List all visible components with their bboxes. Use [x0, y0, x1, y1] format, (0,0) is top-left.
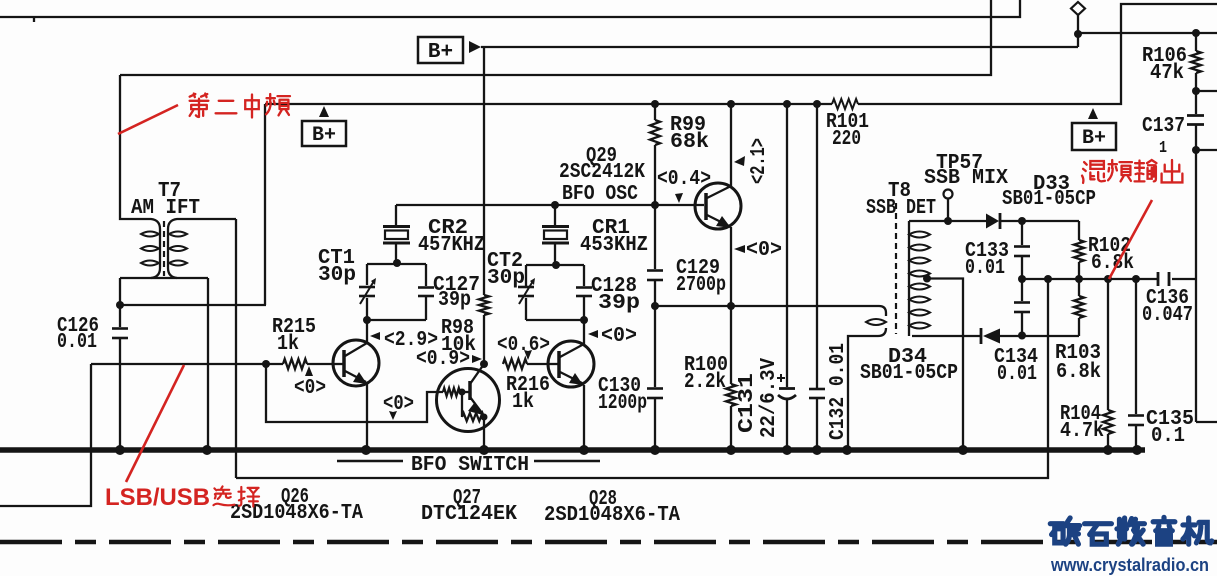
ground bus	[0, 445, 1145, 455]
transistor Q27	[437, 364, 500, 448]
svg-text:1200p: 1200p	[598, 392, 647, 415]
resistor R100	[684, 306, 736, 448]
svg-text:2.2k: 2.2k	[684, 371, 726, 394]
wire Q26 base to Q27 input	[266, 364, 443, 422]
svg-text:47k: 47k	[1150, 62, 1184, 85]
red annotation LSB text	[105, 484, 259, 511]
transistor Q29	[559, 100, 741, 306]
label voltage 0 mid	[383, 393, 414, 420]
svg-text:B+: B+	[312, 124, 336, 147]
wire base row	[91, 360, 334, 368]
resistor R106	[1142, 29, 1217, 114]
svg-text:LSB/USB: LSB/USB	[105, 484, 210, 511]
capacitor C134	[994, 275, 1038, 386]
label voltage 0 at R215	[294, 366, 326, 400]
capacitor C130 label	[598, 375, 647, 415]
capacitor C127	[418, 264, 480, 320]
resistor R101	[826, 99, 869, 151]
svg-text:<0.9>: <0.9>	[416, 348, 470, 371]
capacitor C129	[647, 205, 726, 306]
svg-text:453KHZ: 453KHZ	[580, 234, 648, 257]
wire LSB/USB stub	[0, 364, 91, 506]
svg-text:B+: B+	[1082, 127, 1106, 150]
svg-text:<0>: <0>	[746, 239, 782, 262]
wire cell2 bottom rail	[526, 316, 588, 324]
capacitor C130	[647, 306, 663, 448]
svg-text:1: 1	[1159, 139, 1167, 158]
svg-text:2SD1048X6-TA: 2SD1048X6-TA	[230, 502, 363, 525]
power label B+ (left)	[302, 106, 346, 147]
wire oscillator row	[396, 201, 704, 209]
label voltage 0 at Q29	[734, 239, 782, 262]
svg-text:0.01: 0.01	[997, 363, 1037, 386]
svg-text:BFO SWITCH: BFO SWITCH	[411, 454, 529, 477]
resistor R216	[503, 359, 550, 414]
svg-text:39p: 39p	[438, 289, 471, 312]
node C126 junction	[116, 278, 124, 327]
svg-text:39p: 39p	[598, 292, 640, 315]
capacitor C136	[1142, 272, 1193, 327]
svg-text:C132 0.01: C132 0.01	[827, 343, 850, 440]
svg-text:B+: B+	[428, 41, 453, 64]
capacitor C131	[736, 100, 796, 448]
wire second rail	[120, 0, 991, 75]
svg-text:SB01-05CP: SB01-05CP	[1002, 188, 1096, 211]
svg-text:<0.4>: <0.4>	[657, 168, 711, 191]
label voltage 0.6	[497, 334, 550, 360]
wire left branch x265	[264, 104, 266, 305]
svg-text:30p: 30p	[487, 267, 525, 290]
svg-text:0.01: 0.01	[57, 331, 97, 354]
capacitor C133	[965, 217, 1030, 280]
resistor R98	[441, 47, 489, 368]
wire C126 node to x265	[120, 304, 266, 306]
svg-text:22/6.3V: 22/6.3V	[758, 358, 781, 438]
svg-text:SB01-05CP: SB01-05CP	[860, 362, 958, 385]
red annotation LSB line	[126, 365, 184, 482]
wire detector row	[909, 220, 986, 222]
label voltage 2.1	[734, 138, 771, 184]
wire mix output row y279	[1022, 275, 1196, 283]
svg-text:0.01: 0.01	[965, 257, 1005, 280]
label voltage 0 at Q28	[588, 325, 637, 348]
resistor R215	[272, 316, 316, 369]
svg-text:30p: 30p	[318, 264, 356, 287]
dashed boundary line	[0, 540, 1217, 545]
diode D34	[860, 328, 1079, 385]
resistor R103	[1055, 279, 1101, 384]
svg-text:<0>: <0>	[294, 377, 326, 400]
test point TP57	[924, 152, 1008, 225]
svg-text:<2.1>: <2.1>	[748, 138, 771, 184]
svg-text:<0.6>: <0.6>	[497, 334, 550, 357]
resistor R102	[1074, 221, 1134, 279]
svg-text:BFO OSC: BFO OSC	[562, 183, 638, 206]
svg-text:www.crystalradio.cn: www.crystalradio.cn	[1050, 555, 1209, 575]
svg-text:2700p: 2700p	[676, 274, 726, 297]
wire T7 secondary right down	[207, 278, 209, 448]
svg-text:AM IFT: AM IFT	[131, 197, 200, 220]
capacitor C135	[1128, 279, 1194, 448]
capacitor C126	[57, 315, 128, 448]
capacitor C132	[809, 100, 850, 448]
transformer T7	[120, 75, 236, 278]
connector J (top right)	[1071, 2, 1085, 47]
power label B+ (right)	[1072, 108, 1116, 150]
label voltage 0.4	[657, 168, 711, 203]
svg-text:0.1: 0.1	[1151, 425, 1185, 448]
transistor Q28	[548, 320, 594, 448]
label Q28 part	[544, 488, 680, 527]
wire cell1 top rail	[367, 259, 426, 267]
svg-text:2SC2412K: 2SC2412K	[559, 161, 645, 184]
wire cell1 bottom rail	[363, 316, 426, 324]
wire B+ feed	[481, 46, 1078, 48]
svg-text:C131: C131	[736, 373, 759, 433]
label Q26 part	[230, 486, 363, 525]
red annotation second IF line	[118, 105, 178, 134]
label voltage 0.9	[416, 348, 482, 371]
wire T7 right lead down	[235, 219, 237, 478]
wire BFO return path	[236, 279, 1048, 478]
coupling link of T8	[848, 313, 886, 448]
resistor R104	[1060, 279, 1113, 448]
svg-text:68k: 68k	[670, 131, 709, 154]
wire cell2 top rail	[526, 264, 584, 266]
svg-text:2SD1048X6-TA: 2SD1048X6-TA	[544, 504, 680, 527]
svg-text:SSB MIX: SSB MIX	[924, 167, 1008, 190]
capacitor C137	[1142, 115, 1217, 422]
capacitor trimmer CT1	[318, 247, 376, 320]
resistor R99	[650, 100, 709, 205]
wire branch to right edge	[1074, 30, 1217, 38]
wire T8 tap	[927, 279, 963, 449]
svg-text:1k: 1k	[512, 391, 534, 414]
red annotation mixer out line	[1109, 200, 1152, 279]
label Q27 part	[421, 487, 517, 526]
capacitor C128	[576, 265, 640, 320]
transistor Q26	[333, 320, 379, 448]
capacitor trimmer CT2	[487, 250, 535, 320]
svg-text:6.8k: 6.8k	[1056, 361, 1101, 384]
svg-text:DTC124EK: DTC124EK	[421, 503, 517, 526]
wire top rail	[0, 0, 1020, 22]
svg-text:<0>: <0>	[383, 393, 414, 416]
diode D33	[986, 173, 1096, 229]
svg-text:1k: 1k	[277, 333, 299, 356]
power label B+ (top)	[418, 37, 481, 64]
svg-text:SSB DET: SSB DET	[866, 197, 936, 220]
transformer T8	[866, 180, 981, 336]
svg-text:4.7k: 4.7k	[1060, 420, 1104, 443]
label BFO SWITCH	[337, 454, 600, 477]
red annotation second IF text	[190, 94, 290, 118]
crystal CR1	[542, 205, 648, 269]
watermark url	[1050, 555, 1209, 575]
watermark logo	[1050, 517, 1211, 544]
crystal CR2	[383, 205, 485, 263]
wire emitter row y306	[651, 302, 886, 313]
label voltage 2.9	[370, 329, 438, 352]
svg-text:457KHZ: 457KHZ	[418, 234, 485, 257]
svg-text:220: 220	[832, 128, 861, 151]
svg-text:C137: C137	[1142, 115, 1185, 138]
svg-text:0.047: 0.047	[1142, 304, 1193, 327]
wire supply line y104	[265, 4, 1217, 104]
svg-text:<0>: <0>	[601, 325, 637, 348]
red annotation mixer out text	[1082, 160, 1182, 183]
